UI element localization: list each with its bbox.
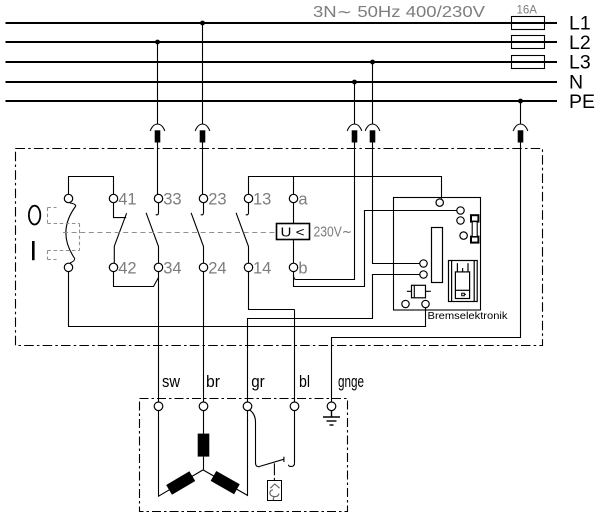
svg-text:Bremselektronik: Bremselektronik <box>428 310 509 322</box>
svg-text:U <: U < <box>281 224 305 239</box>
svg-text:16A: 16A <box>517 5 538 17</box>
svg-text:br: br <box>206 372 220 391</box>
svg-text:b: b <box>298 259 307 277</box>
svg-text:a: a <box>298 190 308 208</box>
svg-text:34: 34 <box>163 259 181 277</box>
svg-text:33: 33 <box>163 190 181 208</box>
svg-text:PE: PE <box>569 91 595 113</box>
svg-text:13: 13 <box>253 190 271 208</box>
svg-text:L3: L3 <box>569 52 591 74</box>
svg-text:41: 41 <box>118 190 136 208</box>
svg-text:3N∼ 50Hz 400/230V: 3N∼ 50Hz 400/230V <box>313 4 486 21</box>
svg-text:gnge: gnge <box>338 372 364 391</box>
svg-text:sw: sw <box>162 372 181 391</box>
svg-text:24: 24 <box>208 259 226 277</box>
svg-text:gr: gr <box>251 372 265 391</box>
svg-text:23: 23 <box>208 190 226 208</box>
svg-text:230V∼: 230V∼ <box>314 225 353 241</box>
svg-text:bl: bl <box>299 372 310 391</box>
svg-text:42: 42 <box>118 259 136 277</box>
svg-text:14: 14 <box>253 259 271 277</box>
svg-text:L2: L2 <box>569 32 591 54</box>
